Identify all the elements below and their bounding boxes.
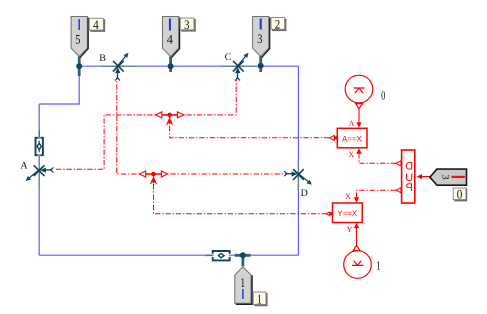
arrow into Y==X pin X [354,197,359,202]
svg-text:Y: Y [347,225,353,234]
duplicator block PUD [396,150,415,203]
valve B [113,53,129,81]
constant tag 3 [430,169,467,185]
wire bottom horizontal pipe [39,254,298,256]
signal wire T1 right output to valve C [176,80,236,115]
svg-text:A==X: A==X [342,134,363,143]
svg-text:A: A [349,119,355,128]
label box 0 (tag) [453,187,466,202]
svg-text:5: 5 [75,32,80,47]
stub under tank T4 [169,57,172,73]
valve C [233,53,249,81]
svg-text:A: A [20,160,28,171]
pipe stub at valve D [297,161,299,190]
wire left jog from tank T5 [39,66,79,104]
comparison block A==X [329,128,367,148]
pipe element P2 (horizontal bracket with diamond) [213,251,230,260]
source circle 0 (constant max) [345,75,373,109]
svg-text:1: 1 [240,275,245,290]
svg-text:D: D [301,188,308,199]
svg-text:C: C [225,52,232,63]
svg-text:P: P [406,182,413,194]
svg-text:1: 1 [257,291,262,306]
source circle 1 (constant min) [344,245,372,278]
svg-text:X: X [348,150,354,159]
signal wire PUD top output to A==X pin X [359,150,396,163]
junction node at tank T1 [240,252,246,258]
junction node under tank T3 [258,63,264,69]
signal wire T1 left output to valve A [55,115,163,169]
label box 1 (tank T1) [253,291,267,306]
valve D [284,169,312,185]
arrow into A==X pin A [356,122,361,127]
signal wire Y==X output to T2 junction [154,180,327,214]
tank T5 [71,17,88,58]
tank T3 [253,17,270,58]
label box 3 (tank T4) [180,17,195,32]
svg-text:3: 3 [439,175,450,180]
wire left vertical pipe [38,104,40,255]
arrow into A==X pin X [356,148,361,153]
pipe stub above pipe element P1 [38,131,40,138]
svg-text:D: D [405,160,413,172]
pipe stub left of pipe element P2 [206,254,213,256]
pipe stub at valve C [222,65,256,67]
valve A [26,165,54,181]
pipe element P1 (vertical bracket with diamond) [36,138,43,155]
svg-text:3: 3 [257,31,262,46]
pipe stub at valve A [38,156,40,186]
signal wire circle1 to Y==X pin Y [356,225,358,246]
svg-text:0: 0 [457,187,463,202]
svg-text:X: X [345,192,351,201]
junction node under tank T4 [168,63,174,69]
comparison block Y==X [326,203,362,223]
signal splitter T2 [139,171,167,184]
tank T4 [163,17,180,58]
arrow into PUD input [417,174,422,179]
stub under tank T3 [259,56,262,72]
signal wire T2 left output to valve B [117,80,147,174]
label box 4 (tank T5) [89,17,104,32]
signal wire PUD bottom output to Y==X pin X [357,190,396,201]
svg-text:0: 0 [381,89,385,103]
svg-text:1: 1 [376,258,380,272]
svg-text:4: 4 [167,31,174,46]
signal wire A==X output to T1 junction [170,121,330,138]
tank T1 (bottom, pointing up) [235,267,252,305]
signal wire tag to PUD input [421,176,430,178]
svg-text:B: B [99,53,106,64]
svg-text:2: 2 [275,16,280,31]
junction node under tank T5 [76,63,82,69]
label box 2 (tank T3) [271,16,286,31]
wire right vertical pipe [297,66,299,255]
svg-text:Y==X: Y==X [337,209,358,218]
arrow into Y==X pin Y [354,223,359,228]
stub at bottom junction J4 [235,255,251,266]
svg-text:3: 3 [184,17,189,32]
stub under tank T5 [78,57,81,77]
wire top horizontal pipe [79,65,298,67]
signal wire T2 right output to valve D [160,173,286,175]
signal wire circle0 to A==X pin A [358,109,360,126]
svg-text:4: 4 [93,17,99,32]
signal splitter T1 [155,112,183,125]
pipe stub at valve B [102,65,136,67]
